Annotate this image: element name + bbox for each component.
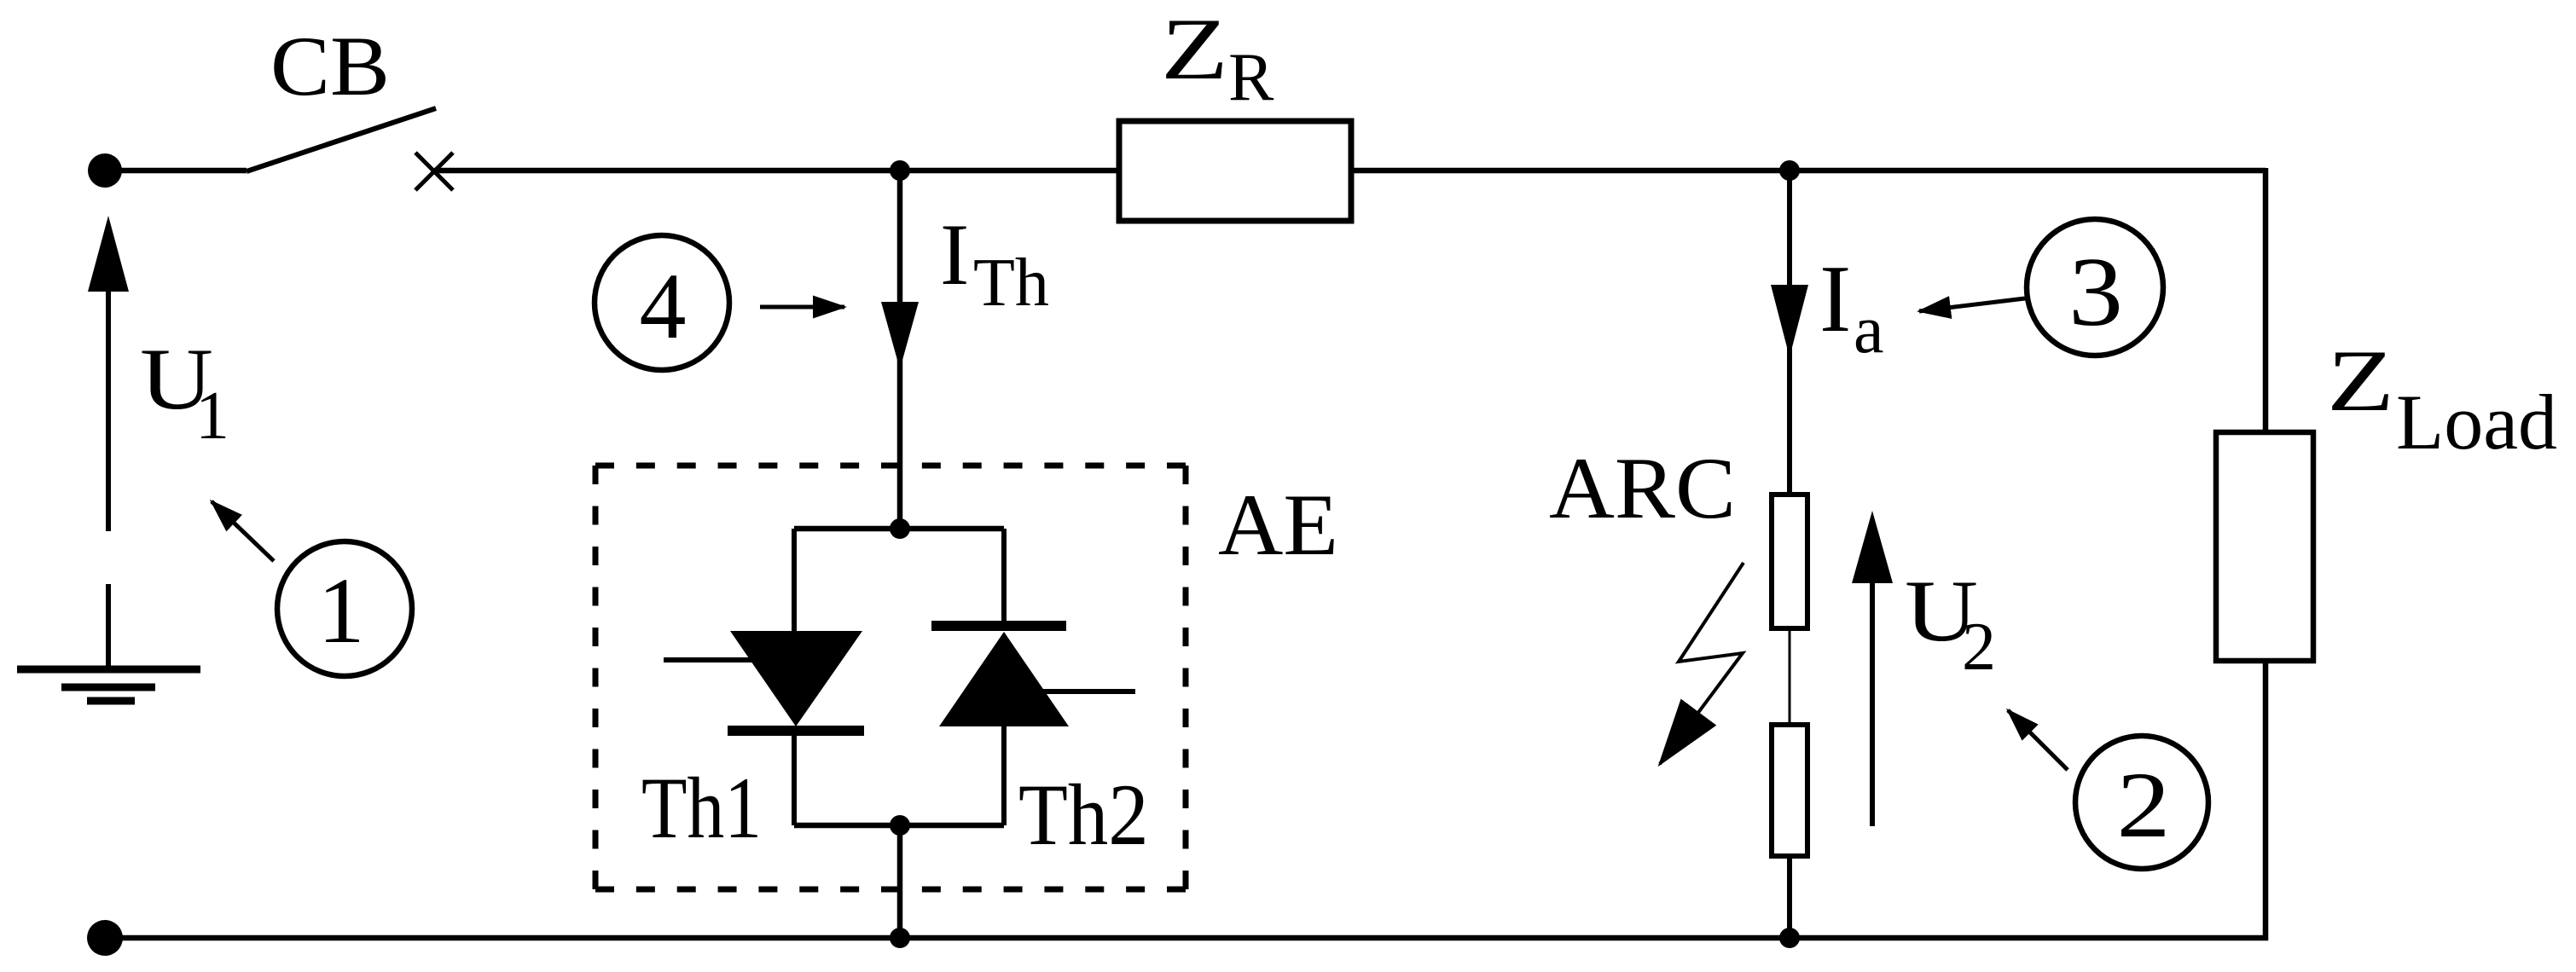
leader arrow 3 — [1919, 298, 2025, 311]
electrode upper of arc gap — [1772, 495, 1807, 628]
voltage arrow U1 — [106, 292, 111, 531]
AE dashed box — [595, 466, 1186, 889]
wire: parallel top bar — [794, 526, 1004, 532]
svg-text:3: 3 — [2068, 238, 2123, 347]
arc gap line — [1789, 628, 1791, 725]
lightning arrow (arc discharge symbol) — [1660, 563, 1743, 764]
svg-text:Load: Load — [2396, 379, 2557, 466]
wire: Th1 anode lead — [792, 529, 797, 633]
svg-text:a: a — [1854, 292, 1884, 367]
callout circle 4 — [595, 235, 729, 370]
node: bottom junction, thyristor branch — [890, 928, 910, 948]
leader arrow 4 — [760, 305, 844, 310]
wire: ground lead — [106, 584, 111, 666]
svg-text:Th: Th — [973, 246, 1049, 321]
svg-text:R: R — [1228, 40, 1274, 115]
callout circle 3 — [2027, 219, 2163, 356]
ground — [17, 666, 200, 674]
wire: Th1 cathode lead — [792, 736, 797, 825]
svg-text:Z: Z — [2327, 333, 2394, 430]
wire: top bus, ZR to top-right corner — [1351, 168, 2266, 174]
wire: load to bottom bus — [2263, 661, 2269, 940]
svg-text:1: 1 — [195, 379, 229, 454]
node: cathode junction — [890, 815, 910, 836]
svg-text:2: 2 — [2117, 753, 2171, 857]
wire: right side drop to load — [2263, 168, 2269, 432]
node: anode junction — [890, 518, 910, 539]
electrode lower of arc gap — [1772, 725, 1807, 856]
resistor ZR — [1119, 121, 1351, 221]
wire: parallel bottom bar — [794, 823, 1004, 829]
leader arrow 2 — [2008, 710, 2068, 770]
svg-text:4: 4 — [640, 254, 687, 358]
svg-text:1: 1 — [318, 558, 365, 662]
svg-text:Th2: Th2 — [1018, 767, 1149, 863]
Th2 anode bar — [931, 621, 1066, 631]
wire: thyristor branch trunk lower — [897, 825, 903, 938]
callout circle 2 — [2075, 736, 2208, 869]
wire: arc branch lower — [1787, 856, 1792, 938]
thyristor Th1 — [730, 631, 862, 726]
load impedance ZLoad — [2216, 432, 2313, 661]
wire: arc branch upper — [1787, 171, 1792, 495]
wire: Th2 top lead — [1001, 529, 1007, 626]
thyristor Th2 — [939, 632, 1069, 726]
svg-text:Th1: Th1 — [641, 759, 762, 856]
bottom bus — [105, 935, 2268, 941]
node: bottom junction, arc branch — [1779, 928, 1800, 948]
svg-text:2: 2 — [1962, 610, 1996, 685]
svg-text:CB: CB — [270, 19, 390, 113]
Th1 gate lead — [664, 657, 754, 662]
wire: top bus, CB to ZR — [434, 168, 1122, 174]
Th2 gate lead — [1042, 689, 1135, 694]
CB contact x-mark — [415, 153, 453, 190]
svg-text:I: I — [940, 206, 969, 304]
leader arrow 1 — [212, 501, 274, 561]
current arrow ITh — [881, 302, 919, 369]
circuit breaker CB (open blade) — [247, 108, 436, 171]
voltage arrow U2 — [1870, 583, 1875, 826]
svg-text:I: I — [1819, 246, 1851, 352]
node: top-left source terminal — [88, 153, 122, 188]
svg-text:ARC: ARC — [1549, 440, 1736, 537]
node: junction, top of thyristor branch — [890, 160, 910, 181]
wire: Th2 cathode lead — [1001, 726, 1007, 825]
svg-text:Z: Z — [1161, 1, 1228, 98]
wire: top bus, terminal to CB hinge — [105, 168, 247, 174]
callout circle 1 — [277, 541, 412, 676]
node: junction, top of arc branch — [1779, 160, 1800, 181]
node: bottom-left terminal — [87, 920, 123, 956]
Th1 cathode bar — [728, 726, 864, 736]
wire: thyristor branch trunk upper — [897, 171, 903, 529]
svg-text:AE: AE — [1218, 477, 1338, 574]
current arrow Ia — [1771, 285, 1808, 357]
